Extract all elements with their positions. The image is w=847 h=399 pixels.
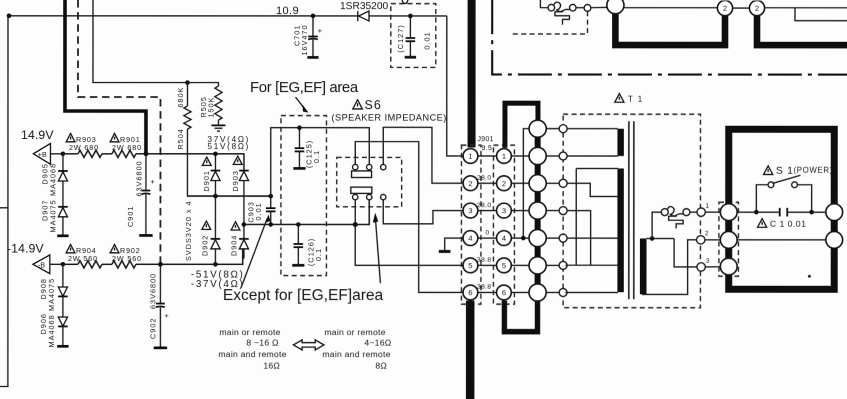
wire chain2 end bbox=[62, 326, 64, 345]
svg-text:main and remote: main and remote bbox=[322, 349, 390, 359]
svg-text:16Ω: 16Ω bbox=[263, 361, 280, 371]
box T1 dashed bbox=[563, 114, 700, 308]
svg-text:6: 6 bbox=[502, 288, 506, 297]
diode D905 bbox=[40, 154, 67, 196]
svg-text:3: 3 bbox=[468, 206, 472, 215]
svg-text:main or remote: main or remote bbox=[324, 327, 385, 337]
wire mid rail bbox=[187, 195, 270, 197]
node thick bus joint bbox=[144, 151, 149, 156]
svg-text:0.01: 0.01 bbox=[254, 202, 263, 220]
connector right side pins bbox=[826, 204, 843, 249]
diode D902 bbox=[200, 196, 220, 264]
diode D903 bbox=[231, 156, 249, 239]
box AC plug dashed bbox=[719, 202, 739, 276]
wire B+ rail bbox=[63, 153, 78, 155]
svg-text:MA4075: MA4075 bbox=[48, 199, 57, 232]
svg-text:2W 560: 2W 560 bbox=[68, 254, 98, 263]
wire chain boundary bbox=[492, 0, 847, 74]
svg-text:2W 680: 2W 680 bbox=[112, 143, 142, 152]
svg-text:S6: S6 bbox=[364, 98, 381, 112]
svg-text:680K: 680K bbox=[176, 87, 185, 108]
svg-text:3: 3 bbox=[706, 258, 710, 265]
svg-text:D904: D904 bbox=[229, 235, 238, 256]
wire pointer to C903 bbox=[241, 219, 267, 289]
switch S6 bottom pole bbox=[351, 187, 386, 200]
node S1 left joint bbox=[754, 210, 759, 215]
wire thick loop bottom bbox=[504, 301, 537, 332]
terminal circle 2b bbox=[749, 0, 764, 15]
node mid rail C903 bbox=[268, 194, 273, 199]
wire thick main bar upper bbox=[468, 0, 476, 147]
node D902 anode bbox=[213, 262, 218, 267]
svg-text:+: + bbox=[150, 177, 155, 186]
svg-text:D903: D903 bbox=[231, 170, 240, 191]
transformer T1 secondary terminals bbox=[697, 203, 710, 271]
svg-text:S 1: S 1 bbox=[776, 166, 794, 177]
wire pointer to S6 bbox=[376, 220, 381, 283]
wire chain end bbox=[62, 217, 64, 236]
resistor R904 bbox=[78, 261, 102, 268]
wire pointer to C125 box bbox=[295, 97, 304, 109]
svg-text:2: 2 bbox=[755, 4, 759, 13]
svg-text:0.1: 0.1 bbox=[312, 150, 321, 163]
capacitor C1 bbox=[737, 208, 826, 217]
node top-left junction bbox=[7, 14, 12, 19]
svg-text:1: 1 bbox=[502, 152, 506, 161]
svg-text:1SR35200: 1SR35200 bbox=[340, 1, 388, 12]
svg-text:main or remote: main or remote bbox=[219, 327, 280, 337]
wire rail to D903 bbox=[136, 154, 244, 171]
svg-text:0.1: 0.1 bbox=[314, 248, 323, 261]
node C701 junction bbox=[311, 14, 316, 19]
wire thick B+ bus bbox=[65, 0, 146, 153]
wire terminal leads bbox=[705, 212, 720, 267]
wire left sheet border bbox=[0, 16, 8, 387]
label S6 bbox=[353, 98, 382, 112]
transformer T1 tap terminals bbox=[559, 125, 567, 297]
svg-text:+: + bbox=[164, 311, 169, 320]
node C125 tap bbox=[297, 125, 302, 130]
node rail D904 bbox=[242, 222, 247, 227]
box J901 left dashed bbox=[461, 145, 481, 304]
node C902 joint bbox=[158, 262, 163, 267]
svg-text:2: 2 bbox=[705, 230, 709, 237]
svg-text:1: 1 bbox=[705, 203, 709, 210]
wire branch lower right bbox=[795, 8, 847, 21]
ground J901 pin4 bbox=[439, 238, 463, 251]
connector J901 left pins bbox=[463, 149, 478, 300]
wire riser to S6 top bbox=[271, 128, 370, 196]
wire J901 row links bbox=[478, 156, 529, 293]
svg-text:J901: J901 bbox=[477, 136, 493, 143]
capacitor C125 bbox=[293, 128, 321, 169]
capacitor C701 bbox=[292, 16, 322, 58]
svg-text:-14.9V: -14.9V bbox=[7, 242, 45, 256]
svg-text:D902: D902 bbox=[200, 235, 209, 256]
svg-text:51V(8Ω): 51V(8Ω) bbox=[207, 142, 250, 151]
wire to right edge bbox=[765, 7, 847, 9]
svg-text:MA4068: MA4068 bbox=[48, 163, 57, 196]
diode D904 bbox=[229, 222, 248, 265]
svg-text:28.0: 28.0 bbox=[477, 202, 491, 209]
node B+ output bbox=[33, 143, 65, 164]
wire R504 bottom lead to mid rail bbox=[187, 129, 270, 196]
svg-text:38.8: 38.8 bbox=[477, 284, 491, 291]
wire left edge tick bbox=[0, 207, 7, 209]
svg-text:63V6800: 63V6800 bbox=[134, 160, 143, 196]
box power unit bbox=[729, 129, 835, 289]
diode D906 bbox=[39, 296, 68, 347]
svg-text:0: 0 bbox=[485, 230, 489, 237]
node stray mark bbox=[808, 275, 811, 278]
node B- output bbox=[33, 255, 65, 274]
wire secondary tap2 bbox=[642, 240, 697, 295]
svg-text:5: 5 bbox=[468, 261, 472, 270]
diode D907 bbox=[40, 181, 67, 233]
svg-text:6: 6 bbox=[468, 288, 472, 297]
svg-text:2W 560: 2W 560 bbox=[112, 254, 142, 263]
svg-text:D901: D901 bbox=[202, 170, 211, 191]
wire S6 top1 to J901-6 bbox=[355, 142, 462, 293]
svg-text:(POWER): (POWER) bbox=[793, 166, 833, 175]
svg-text:4: 4 bbox=[468, 234, 472, 243]
wire secondary top bbox=[647, 238, 675, 240]
node secondary top joint bbox=[650, 236, 655, 241]
thermal protector TP1 top bbox=[540, 0, 607, 25]
terminal circle 2a bbox=[717, 0, 732, 15]
svg-text:2: 2 bbox=[468, 179, 472, 188]
wire secondary tap3 bbox=[674, 239, 697, 267]
transformer T1 primary winding bars bbox=[535, 137, 541, 284]
svg-text:main and remote: main and remote bbox=[218, 349, 286, 359]
svg-text:4~16Ω: 4~16Ω bbox=[364, 338, 391, 348]
node rail S6 crossing bbox=[353, 222, 358, 227]
wire B- rail bbox=[63, 263, 78, 265]
svg-text:+: + bbox=[318, 26, 323, 35]
svg-text:C 1 0.01: C 1 0.01 bbox=[770, 219, 807, 229]
resistor R902 bbox=[112, 261, 136, 268]
svg-text:C902: C902 bbox=[148, 318, 157, 339]
svg-text:C901: C901 bbox=[126, 206, 135, 227]
label row voltages bbox=[477, 175, 491, 291]
node rail C126 bbox=[296, 222, 301, 227]
wire rail to D904 bbox=[136, 249, 243, 264]
svg-text:38.8: 38.8 bbox=[477, 257, 491, 264]
wire R504 leads bbox=[186, 83, 188, 107]
svg-text:5: 5 bbox=[502, 261, 506, 270]
connector plug prongs bbox=[720, 204, 737, 275]
svg-text:SVDS3V20 x 4: SVDS3V20 x 4 bbox=[184, 200, 193, 261]
svg-text:MA4068: MA4068 bbox=[47, 314, 56, 347]
wire R505 branch bbox=[187, 83, 218, 87]
wire tap links bbox=[546, 129, 559, 293]
svg-text:10.9: 10.9 bbox=[276, 5, 299, 17]
svg-text:4: 4 bbox=[502, 234, 506, 243]
svg-text:1: 1 bbox=[468, 152, 472, 161]
wire neutral link bbox=[737, 239, 826, 241]
svg-text:MA4075: MA4075 bbox=[47, 278, 56, 311]
node C127 junction bbox=[408, 14, 413, 19]
resistor R504 bbox=[184, 106, 191, 129]
capacitor C126 bbox=[292, 225, 323, 267]
wire dashed EG-EF bus bbox=[78, 0, 161, 264]
wire primary start to pin4 bbox=[523, 129, 529, 238]
svg-text:8 ~16 Ω: 8 ~16 Ω bbox=[246, 338, 279, 348]
diode 1SR35200 bbox=[340, 1, 388, 21]
capacitor C127 optional bbox=[391, 0, 436, 67]
wire between 2a 2b bbox=[733, 7, 750, 9]
svg-text:14.9V: 14.9V bbox=[21, 128, 54, 142]
winding loop big circle top bbox=[607, 0, 624, 14]
box optional C125 C126 bbox=[281, 116, 327, 276]
ground R505 bbox=[217, 120, 219, 125]
wire thick J901 bottom bar bbox=[466, 301, 475, 399]
svg-text:2: 2 bbox=[723, 4, 727, 13]
transformer T1 secondary winding symbol bbox=[640, 239, 647, 295]
wire S6 bot3 to J901-3 bbox=[383, 200, 462, 224]
resistor R903 bbox=[78, 150, 102, 157]
wire lower mid rail bbox=[244, 200, 369, 225]
capacitor C902 bbox=[148, 264, 169, 348]
svg-text:8Ω: 8Ω bbox=[375, 361, 387, 371]
wire S6 top3 to J901-2 bbox=[383, 127, 462, 183]
winding thick U2 bbox=[757, 15, 847, 45]
svg-text:T 1: T 1 bbox=[628, 95, 644, 104]
transformer T1 primary winding symbol bbox=[617, 129, 623, 292]
wire top link to terminal 2a bbox=[624, 7, 717, 9]
label T1 bbox=[615, 94, 644, 104]
svg-text:For [EG,EF] area: For [EG,EF] area bbox=[250, 79, 359, 96]
wire dashed TP boundary bbox=[512, 11, 587, 34]
svg-text:150K: 150K bbox=[206, 97, 215, 118]
transformer T1 loop circles bbox=[529, 120, 546, 301]
winding thick U1 bbox=[615, 14, 725, 45]
svg-text:3: 3 bbox=[502, 206, 506, 215]
svg-text:2: 2 bbox=[502, 179, 506, 188]
svg-text:9.5: 9.5 bbox=[481, 145, 492, 152]
wire main top rail bbox=[9, 15, 447, 17]
svg-text:+B: +B bbox=[38, 150, 47, 159]
wire thin bus to R504 bbox=[93, 0, 188, 83]
node R504 top junction bbox=[185, 80, 190, 85]
switch S6 top pole bbox=[352, 164, 386, 177]
capacitor C901 bbox=[126, 154, 156, 236]
resistor R505 bbox=[215, 86, 222, 120]
svg-text:Except for [EG,EF]area: Except for [EG,EF]area bbox=[223, 287, 384, 304]
thermal protector TP2 bbox=[652, 207, 697, 239]
box J901 right dashed bbox=[493, 145, 514, 304]
svg-text:2W 680: 2W 680 bbox=[69, 143, 99, 152]
svg-text:28.0: 28.0 bbox=[477, 175, 491, 182]
node S1 right joint bbox=[809, 210, 814, 215]
label main or remote left bbox=[218, 327, 286, 371]
capacitor C903 bbox=[246, 196, 275, 224]
svg-text:-B: -B bbox=[38, 260, 45, 269]
wire rail seg2 bbox=[102, 263, 112, 265]
svg-text:0.01: 0.01 bbox=[422, 31, 431, 49]
svg-text:16V470: 16V470 bbox=[300, 24, 309, 55]
symbol double arrow bbox=[293, 340, 324, 350]
svg-text:63V6800: 63V6800 bbox=[148, 273, 157, 309]
wire to J901 pin1 bbox=[447, 16, 463, 156]
wire rail seg bbox=[102, 153, 112, 155]
node D901 cathode bbox=[213, 152, 218, 157]
connector J901 right pins bbox=[496, 149, 511, 300]
svg-text:(SPEAKER IMPEDANCE): (SPEAKER IMPEDANCE) bbox=[331, 113, 446, 123]
node mid rail D901 bbox=[213, 194, 218, 199]
label main or remote right bbox=[322, 327, 391, 371]
switch S1 bbox=[756, 175, 811, 212]
diode D908 bbox=[39, 264, 68, 311]
svg-text:(C127): (C127) bbox=[396, 24, 405, 52]
node primary start joint bbox=[521, 236, 526, 241]
label C1 bbox=[758, 219, 807, 229]
resistor R901 bbox=[112, 150, 136, 157]
label S1 POWER bbox=[764, 166, 833, 177]
transformer T1 core bbox=[628, 121, 630, 299]
wire primary tap routing bbox=[565, 129, 618, 293]
svg-text:R504: R504 bbox=[176, 128, 185, 149]
diode D901 bbox=[202, 154, 220, 196]
wire thick loop top bbox=[505, 103, 538, 148]
box S6 dashed bbox=[337, 157, 402, 206]
node rail C903 bbox=[268, 222, 273, 227]
wire S6 bot1 to J901-5 bbox=[355, 200, 462, 266]
